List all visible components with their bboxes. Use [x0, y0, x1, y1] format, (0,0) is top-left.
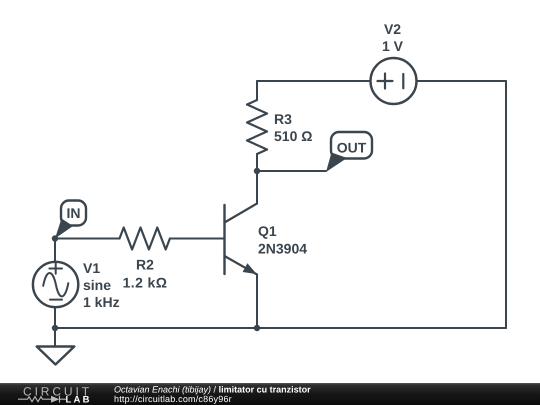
- svg-text:LAB: LAB: [66, 395, 92, 405]
- svg-text:http://circuitlab.com/c86y96r: http://circuitlab.com/c86y96r: [114, 394, 232, 404]
- junction node at IN: [52, 235, 58, 241]
- transistor Q1 emitter arrowhead: [243, 263, 257, 274]
- svg-text:Octavian Enachi (tibijay) / li: Octavian Enachi (tibijay) / limitator cu…: [114, 384, 311, 394]
- wire bottom rail: [55, 327, 506, 329]
- resistor R2 zigzag: [120, 228, 170, 250]
- junction node at OUT: [254, 168, 260, 174]
- svg-text:OUT: OUT: [337, 139, 367, 155]
- wire right rail: [505, 81, 507, 328]
- transistor Q1 base bar: [223, 205, 225, 274]
- svg-text:V1: V1: [83, 260, 100, 276]
- svg-text:sine: sine: [83, 277, 111, 293]
- voltage source V1 circle: [33, 262, 78, 307]
- svg-text:1 kHz: 1 kHz: [83, 294, 120, 310]
- wire IN node down to V1 top: [54, 239, 56, 263]
- wire R3 top stem: [256, 81, 258, 100]
- wire top-right from V2 to right rail: [417, 80, 507, 82]
- V2 plus sign: [378, 74, 393, 89]
- V2 minus bar (rotated): [402, 74, 404, 88]
- flag IN box: [61, 201, 86, 226]
- svg-text:Q1: Q1: [258, 223, 277, 239]
- flag IN pointer tail: [55, 219, 73, 239]
- junction node at V1 bottom / ground: [52, 325, 58, 331]
- svg-text:V2: V2: [384, 21, 401, 37]
- svg-text:2N3904: 2N3904: [258, 240, 307, 256]
- svg-text:1 V: 1 V: [382, 38, 404, 54]
- svg-text:510 Ω: 510 Ω: [274, 128, 312, 144]
- flag OUT pointer tail: [326, 153, 347, 173]
- transistor Q1 emitter diagonal: [225, 256, 258, 275]
- flag OUT box: [331, 132, 372, 159]
- wire V1 bottom to ground node: [54, 307, 56, 328]
- footer logo wire with resistor and diode: [18, 396, 66, 403]
- wire base wire from R2 to Q1: [170, 238, 224, 240]
- V1 sine wave: [43, 273, 68, 296]
- svg-text:IN: IN: [67, 205, 81, 221]
- ground symbol: [37, 347, 75, 365]
- wire OUT node to OUT flag: [257, 170, 326, 172]
- resistor R3 zigzag: [247, 100, 267, 154]
- transistor Q1 collector diagonal: [225, 204, 258, 223]
- junction node at emitter/bottom rail: [254, 325, 260, 331]
- wire IN node to R2: [55, 238, 120, 240]
- svg-text:R2: R2: [136, 257, 154, 273]
- V1 plus sign: [49, 263, 62, 273]
- V1 minus sign: [50, 299, 62, 301]
- wire emitter stem: [256, 275, 258, 329]
- wire ground stem: [54, 328, 56, 347]
- wire top-left from R3 branch to V2: [257, 80, 371, 82]
- wire R3 bottom stem to OUT node: [256, 154, 258, 171]
- wire collector stem: [256, 171, 258, 204]
- svg-text:R3: R3: [274, 111, 292, 127]
- voltage source V2 circle: [371, 58, 417, 104]
- svg-text:1.2 kΩ: 1.2 kΩ: [123, 275, 168, 291]
